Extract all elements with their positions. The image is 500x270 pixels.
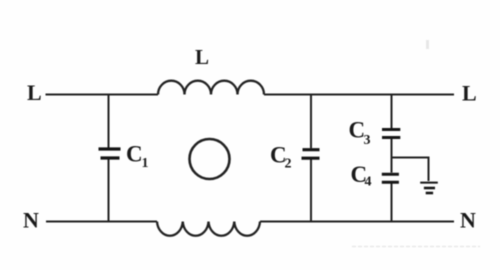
svg-text:L: L (462, 81, 477, 106)
svg-text:1: 1 (142, 156, 149, 171)
svg-text:N: N (460, 208, 476, 233)
svg-text:C: C (126, 142, 143, 167)
svg-text:L: L (195, 45, 209, 69)
svg-text:L: L (27, 80, 42, 105)
svg-text:2: 2 (285, 157, 292, 172)
svg-text:4: 4 (365, 175, 372, 190)
svg-text:N: N (23, 208, 39, 233)
svg-text:3: 3 (364, 133, 371, 148)
